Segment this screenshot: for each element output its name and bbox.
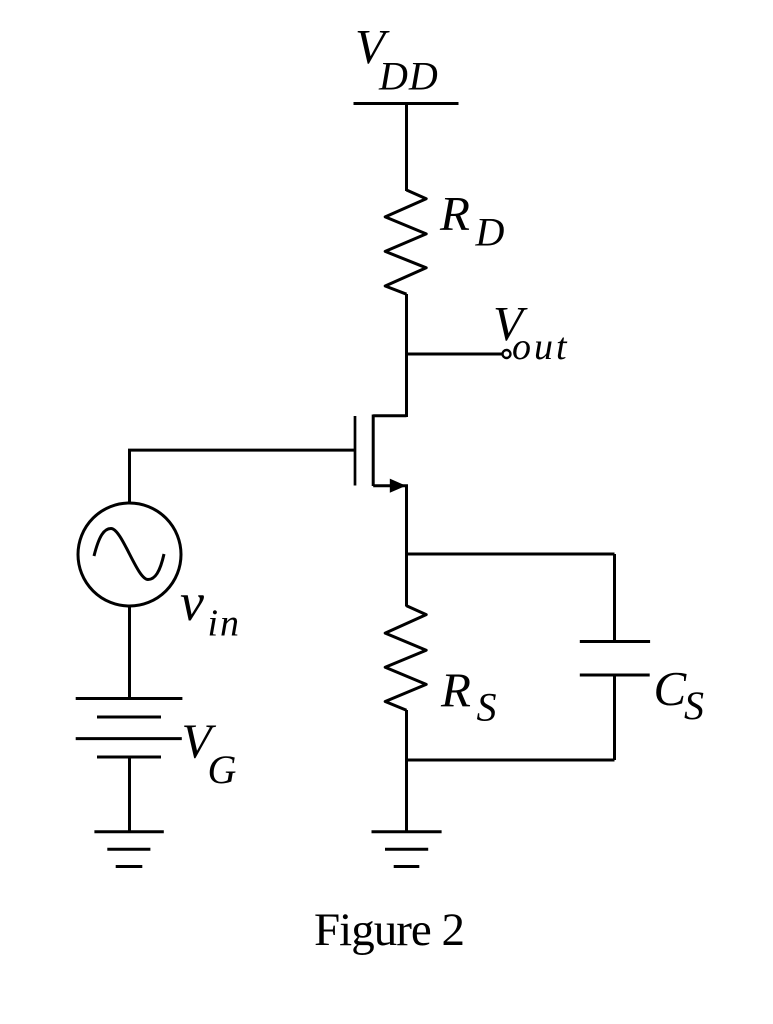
power rail VDD: [354, 102, 459, 105]
wire CS bottom branch: [613, 675, 616, 760]
ground (right): [372, 832, 442, 867]
drain bend: [373, 416, 406, 417]
resistor RS: [385, 606, 426, 711]
svg-text:G: G: [208, 747, 237, 792]
transistor M1 (NMOS): [355, 415, 407, 493]
terminal Vout: [503, 350, 511, 358]
resistor RD: [385, 190, 426, 294]
battery VG: [76, 699, 183, 758]
wire VDD bar to resistor RD: [405, 104, 408, 192]
svg-text:out: out: [512, 326, 570, 368]
capacitor CS: [580, 642, 650, 676]
wire vin to battery VG: [128, 606, 131, 699]
svg-text:DD: DD: [378, 54, 439, 99]
svg-text:C: C: [654, 661, 688, 716]
sine wave: [94, 529, 164, 580]
svg-text:R: R: [439, 186, 470, 241]
source arrow: [390, 479, 406, 493]
svg-text:D: D: [475, 210, 505, 255]
gate bar: [354, 416, 357, 486]
wire bottom node horizontal (from CS branch): [407, 759, 615, 762]
svg-text:R: R: [440, 663, 471, 718]
wire gate to vin: [130, 450, 356, 504]
svg-text:in: in: [208, 603, 242, 645]
channel bar: [372, 415, 375, 487]
wire battery to ground: [128, 757, 131, 832]
svg-text:S: S: [684, 683, 704, 728]
wire node S to resistor RS: [405, 554, 408, 607]
wire node S horizontal (to CS branch): [407, 553, 615, 556]
wire bottom node to ground: [405, 760, 408, 832]
svg-text:Figure 2: Figure 2: [314, 904, 464, 956]
source vin (sine source): [78, 503, 181, 606]
ground (left): [94, 832, 163, 867]
svg-text:S: S: [477, 685, 497, 730]
wire CS top branch: [613, 554, 616, 642]
wire Vout tap: [407, 353, 503, 356]
wire RD to drain / Vout node: [405, 294, 408, 417]
svg-text:v: v: [180, 572, 204, 632]
wire source to node S: [405, 486, 408, 556]
wire RS to bottom node: [405, 710, 408, 762]
source lead: [373, 486, 406, 487]
